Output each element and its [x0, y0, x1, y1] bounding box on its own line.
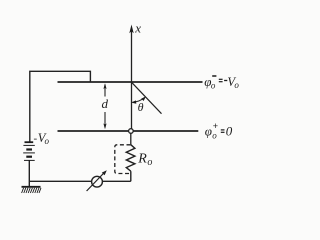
svg-text:o: o [211, 81, 216, 91]
svg-text:φ: φ [205, 124, 212, 139]
svg-text:0: 0 [226, 124, 233, 139]
svg-text:d: d [102, 96, 109, 111]
svg-text:θ: θ [138, 100, 144, 114]
svg-text:o: o [234, 80, 239, 90]
svg-text:o: o [45, 136, 50, 146]
svg-text:o: o [147, 157, 152, 168]
svg-text:o: o [212, 131, 217, 141]
svg-text:R: R [137, 152, 147, 167]
svg-text:x: x [134, 21, 141, 36]
